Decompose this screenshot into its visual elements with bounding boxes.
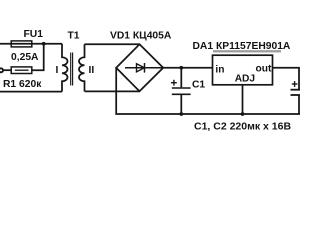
svg-text:I: I: [56, 65, 59, 76]
transformer T1 core: [70, 53, 72, 86]
wire minus rail: [116, 68, 300, 114]
wire node A to R1: [33, 44, 44, 70]
wire secondary top to bridge: [85, 43, 140, 45]
svg-text:C1: C1: [192, 80, 205, 91]
wire R1 left lead: [3, 69, 11, 71]
junction C1 bottom: [179, 112, 183, 116]
terminal X1: [0, 68, 3, 72]
wire secondary bottom to bridge: [85, 90, 140, 92]
svg-text:in: in: [215, 64, 224, 75]
fuse FU1: [11, 41, 32, 47]
capacitor C1 plus sign: [171, 80, 177, 86]
capacitor C2 plus sign: [292, 81, 298, 87]
junction C1 top: [179, 66, 183, 70]
svg-text:FU1: FU1: [24, 29, 44, 40]
regulator DA1 box: [213, 55, 273, 85]
resistor R1 power mark: [15, 69, 29, 71]
wire mains top line: [0, 43, 62, 45]
bridge rectifier VD1 diamond: [116, 44, 163, 91]
transformer T1 secondary winding II: [79, 44, 85, 91]
capacitor C1 plates: [172, 87, 191, 89]
junction ADJ: [241, 112, 245, 116]
wire DA1 ADJ lead: [242, 85, 244, 114]
capacitor C1 leads: [180, 68, 182, 88]
capacitor C2 lower lead: [298, 95, 300, 114]
grey underline under DA1 part number: [213, 50, 281, 52]
transformer T1 primary winding I: [62, 44, 68, 92]
resistor R1: [11, 67, 32, 74]
svg-text:ADJ: ADJ: [235, 73, 255, 84]
svg-text:VD1 КЦ405А: VD1 КЦ405А: [110, 31, 172, 42]
wire plus output: [163, 67, 212, 69]
capacitor C2 plates: [291, 89, 301, 91]
wire DA1 out: [273, 68, 300, 90]
diode inside VD1: [125, 67, 163, 69]
svg-text:0,25А: 0,25А: [11, 52, 39, 63]
svg-text:T1: T1: [68, 31, 80, 42]
svg-text:II: II: [89, 65, 95, 76]
wire mains bottom line: [0, 91, 62, 93]
junction node A: [42, 42, 46, 46]
svg-text:out: out: [256, 63, 272, 74]
svg-text:C1, C2 220мк x 16В: C1, C2 220мк x 16В: [194, 120, 291, 132]
svg-text:DA1 КР1157ЕН901А: DA1 КР1157ЕН901А: [193, 41, 291, 52]
svg-text:R1 620к: R1 620к: [3, 79, 42, 90]
